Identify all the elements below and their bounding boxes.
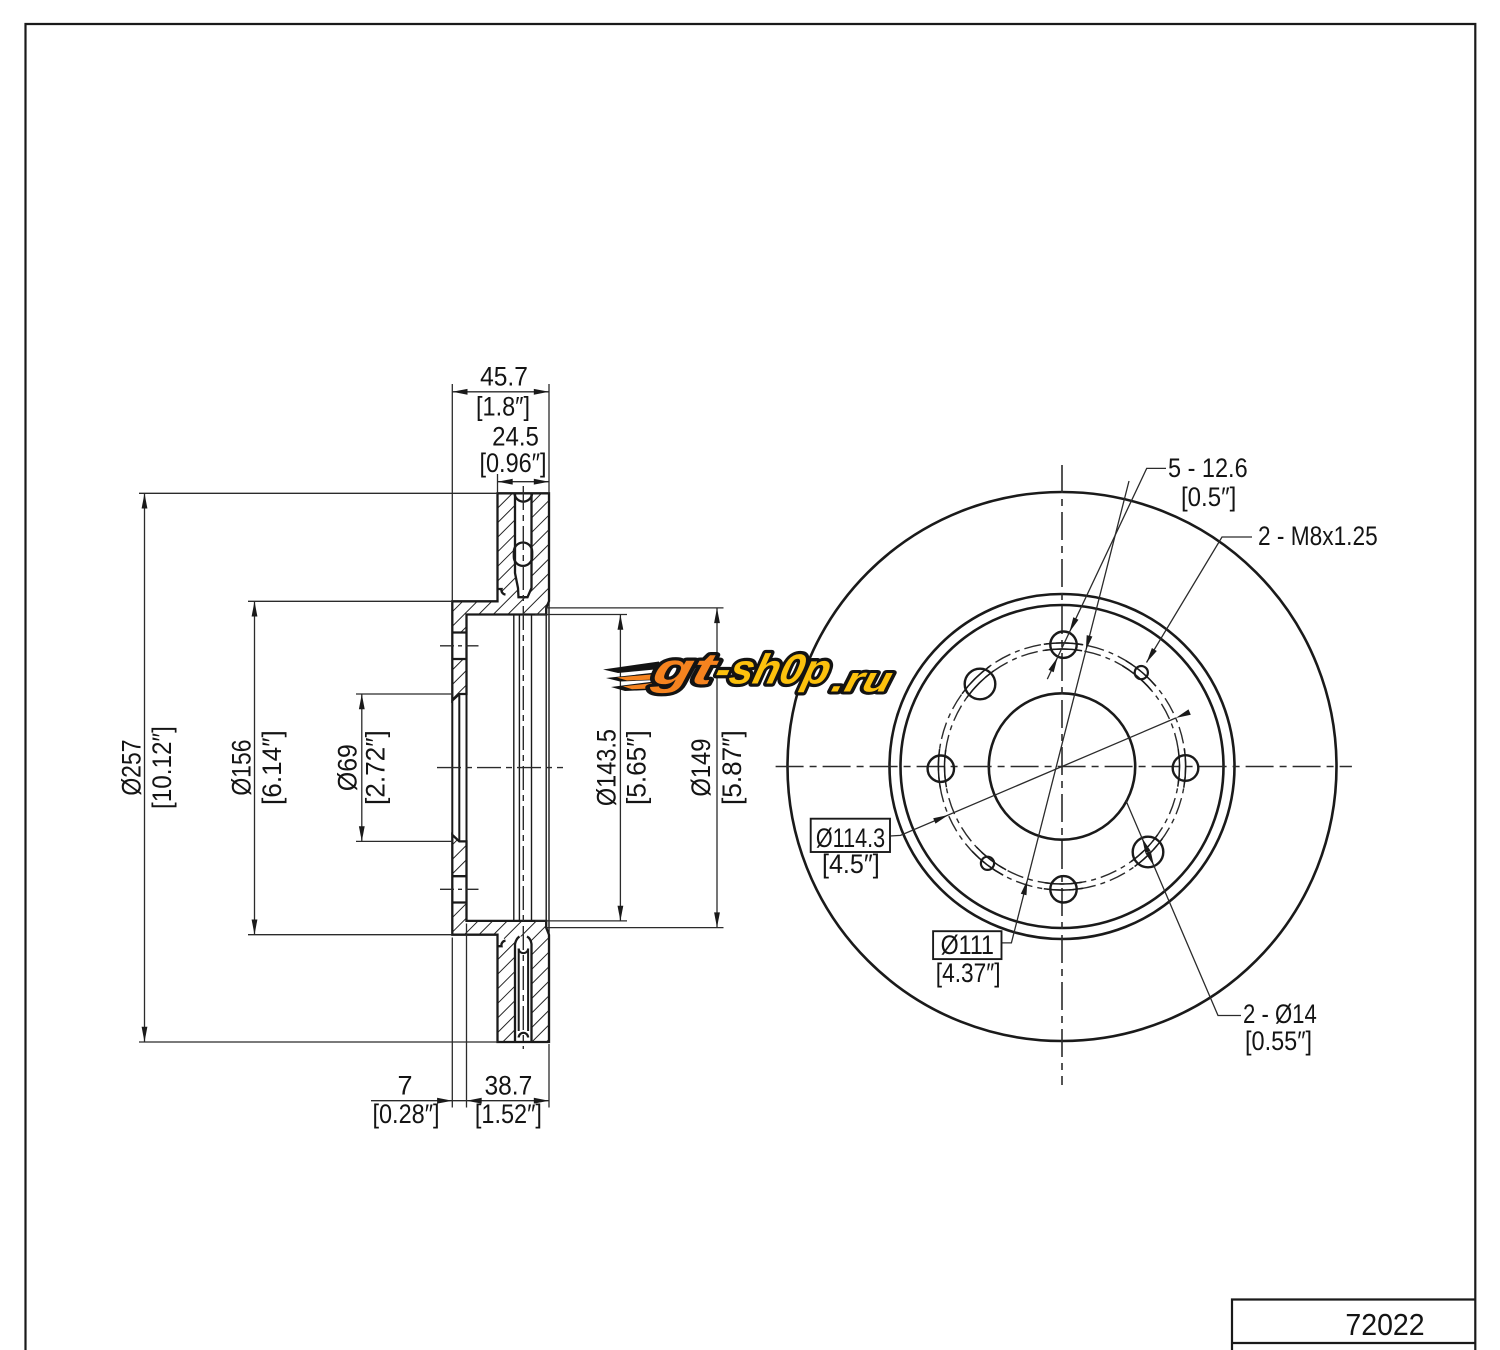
dimension O111 diameter line xyxy=(1002,481,1130,943)
friction band inner circle xyxy=(890,594,1235,939)
extension line 7 left xyxy=(451,938,453,1108)
section outline (bottom half) xyxy=(452,835,549,1042)
extension line O143.5 top xyxy=(535,614,627,616)
extension line O156 top xyxy=(248,600,452,602)
extension line 7 right xyxy=(466,924,468,1108)
rotor axis centerline xyxy=(437,767,563,769)
section outline (top half) xyxy=(452,493,549,700)
wheel stud hole gap in flange (top) xyxy=(452,633,466,660)
svg-text:2 - M8x1.25: 2 - M8x1.25 xyxy=(1258,521,1378,551)
dimension line O69 xyxy=(361,694,363,841)
svg-text:38.7: 38.7 xyxy=(485,1071,533,1100)
stud hole 1 (top) xyxy=(1050,632,1076,658)
svg-text:72022: 72022 xyxy=(1345,1308,1424,1342)
vertical centerline xyxy=(1061,465,1063,1085)
svg-text:[2.72″]: [2.72″] xyxy=(360,730,390,805)
extension line O156 bottom xyxy=(248,934,452,936)
svg-text:Ø143.5: Ø143.5 xyxy=(592,729,622,806)
svg-text:[10.12″]: [10.12″] xyxy=(148,726,177,809)
hole 2 O14 (upper left) xyxy=(965,669,996,700)
vent slot neck lines (bottom) xyxy=(519,949,528,1032)
vent hole (top, mid) xyxy=(514,543,532,566)
vent hole at rim (bottom) xyxy=(519,1033,528,1038)
outer diameter circle O257 xyxy=(788,492,1337,1041)
svg-text:[0.55″]: [0.55″] xyxy=(1245,1027,1312,1057)
M8 screw hole (upper right) xyxy=(1135,666,1148,679)
extension line O257 top xyxy=(139,492,498,494)
svg-text:Ø156: Ø156 xyxy=(227,740,257,796)
dimension line O156 xyxy=(254,601,256,934)
stud hole edge lines (top) xyxy=(452,633,466,660)
extension line 24.5 left xyxy=(497,474,499,493)
undercut notch (bottom) xyxy=(498,937,506,946)
vent slot end cap (bottom) xyxy=(519,949,528,954)
svg-text:[5.65″]: [5.65″] xyxy=(621,730,651,805)
extension line O149 top xyxy=(546,607,723,609)
hat outer circle xyxy=(901,605,1224,928)
vent channel (bottom) white xyxy=(515,937,532,1043)
extension line O69 top xyxy=(356,693,453,695)
undercut notch (top) xyxy=(498,589,506,598)
wheel stud hole gap in flange (bottom) xyxy=(452,876,466,902)
title block xyxy=(1232,1300,1475,1350)
svg-text:[1.52″]: [1.52″] xyxy=(475,1100,542,1130)
leader 5-12.6 xyxy=(1047,468,1166,679)
svg-text:[1.8″]: [1.8″] xyxy=(476,392,530,422)
vent channel outline (top) xyxy=(515,493,532,597)
bore chamfers xyxy=(452,694,459,841)
extension line O69 bottom xyxy=(356,840,453,842)
stud hole 3 (left) xyxy=(928,756,954,782)
svg-text:5 - 12.6: 5 - 12.6 xyxy=(1168,454,1248,484)
svg-text:Ø149: Ø149 xyxy=(687,739,717,797)
svg-text:Ø257: Ø257 xyxy=(117,740,147,796)
dimension line 7 and 38.7 xyxy=(371,1100,549,1102)
leader 2-O14 xyxy=(1126,800,1241,1016)
dimension line O149 xyxy=(716,608,718,928)
bolt circle O114.3 dash-dot xyxy=(938,643,1185,890)
speed spikes xyxy=(603,662,660,674)
rotor front view xyxy=(788,492,1337,1041)
brake rotor cross-section view xyxy=(452,493,549,1042)
svg-text:7: 7 xyxy=(397,1071,412,1101)
svg-text:[0.96″]: [0.96″] xyxy=(479,449,546,479)
bolt circle solid arcs through holes xyxy=(938,643,1185,890)
hole 4 O14 (lower right) xyxy=(1133,837,1164,868)
stud hole edge lines (bottom) xyxy=(452,876,466,902)
extension line O257 bottom xyxy=(139,1041,498,1043)
svg-text:[4.5″]: [4.5″] xyxy=(822,848,880,879)
horizontal centerline xyxy=(776,766,1352,768)
dimension line 45.7 xyxy=(452,391,549,393)
centre bore circle O69 xyxy=(989,693,1135,839)
dimension O114.3 diameter line xyxy=(890,718,1176,836)
stud hole centerline tick (top) xyxy=(440,645,479,647)
vent channel (top) white xyxy=(515,493,532,597)
svg-text:[4.37″]: [4.37″] xyxy=(936,958,1001,988)
svg-text:[6.14″]: [6.14″] xyxy=(257,730,287,805)
vent hole at rim (top) xyxy=(515,494,532,501)
extension line 38.7 right xyxy=(548,1044,550,1108)
extension line 45.7 left xyxy=(451,384,453,601)
svg-text:[0.5″]: [0.5″] xyxy=(1181,483,1236,513)
vent channel outline (bottom) xyxy=(515,937,532,1043)
dimension line O143.5 xyxy=(619,615,621,921)
M8 screw hole (lower left) xyxy=(981,857,994,870)
svg-text:24.5: 24.5 xyxy=(492,422,539,452)
svg-text:2 - Ø14: 2 - Ø14 xyxy=(1243,1000,1317,1030)
label box O114.3 xyxy=(811,819,890,852)
stud hole 6 (right) xyxy=(1173,755,1199,781)
svg-text:[5.87″]: [5.87″] xyxy=(717,730,747,805)
svg-text:45.7: 45.7 xyxy=(480,362,528,391)
svg-text:-sh0p: -sh0p xyxy=(711,646,837,693)
extension line 45.7 right xyxy=(548,384,550,493)
rotor section solid (bottom half) hatched xyxy=(452,835,549,1042)
svg-text:.ru: .ru xyxy=(828,660,897,699)
leader 2-M8x1.25 xyxy=(1147,537,1253,663)
vent channel centerline xyxy=(522,486,524,1049)
dimension line 24.5 xyxy=(498,481,550,483)
label box O111 xyxy=(933,931,1001,959)
svg-text:[0.28″]: [0.28″] xyxy=(372,1100,439,1130)
stud hole centerline tick (bottom) xyxy=(440,888,479,890)
extension line O143.5 bottom xyxy=(535,920,627,922)
bolt circle O111 dash-dot xyxy=(945,649,1180,884)
svg-text:Ø111: Ø111 xyxy=(941,930,994,960)
centre bore edge lines xyxy=(452,694,466,841)
hat bowl inner edges xyxy=(514,615,532,921)
dimension line O257 xyxy=(144,493,146,1042)
stud hole 5 (bottom) xyxy=(1050,876,1076,902)
extension line O149 bottom xyxy=(546,927,723,929)
svg-text:Ø69: Ø69 xyxy=(334,744,363,791)
gt-shop.ru watermark logo xyxy=(603,646,897,700)
rotor section solid (top half) hatched xyxy=(452,493,549,700)
